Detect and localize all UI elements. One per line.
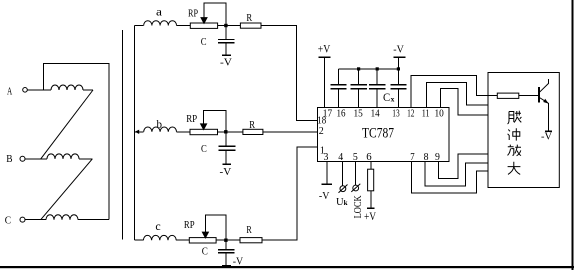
- svg-text:a: a: [156, 4, 163, 18]
- potentiometer RP (a): [188, 3, 226, 28]
- svg-text:16: 16: [337, 107, 346, 119]
- glyph 放: [508, 145, 522, 156]
- terminal pin 5 LOCK: [351, 162, 364, 219]
- wire: [262, 147, 318, 240]
- node junction c: [224, 239, 227, 242]
- power -V (cap bus): [393, 44, 405, 69]
- svg-text:18: 18: [317, 115, 326, 127]
- resistor R (a): [240, 12, 261, 28]
- svg-text:RP: RP: [188, 9, 198, 20]
- svg-text:C: C: [383, 90, 390, 104]
- svg-text:5: 5: [353, 151, 358, 163]
- capacitor C (c): [202, 240, 235, 265]
- svg-text:+V: +V: [364, 209, 376, 223]
- svg-text:c: c: [155, 219, 160, 233]
- svg-text:3: 3: [324, 151, 329, 163]
- wire pin 7 route: [411, 162, 488, 194]
- wire pin 9 route: [438, 154, 488, 179]
- wire: [41, 90, 93, 159]
- capacitor C4 Cx (pin 13): [383, 69, 407, 108]
- svg-text:+V: +V: [318, 42, 331, 56]
- wire pin 12 route: [411, 76, 497, 108]
- wire: [176, 239, 189, 241]
- svg-text:13: 13: [392, 107, 400, 119]
- wire: [27, 89, 51, 91]
- svg-text:7: 7: [410, 151, 415, 163]
- wire: [218, 25, 241, 27]
- wire: [134, 131, 143, 133]
- wire: [134, 239, 143, 241]
- node C: [5, 215, 25, 227]
- wire: [79, 158, 92, 160]
- svg-text:-V: -V: [233, 255, 243, 267]
- wire: [263, 131, 318, 133]
- svg-text:B: B: [6, 153, 12, 165]
- block pulse amplifier 脉冲放大: [488, 73, 559, 188]
- svg-text:LOCK: LOCK: [353, 195, 364, 218]
- wire: [216, 239, 240, 241]
- svg-text:C: C: [201, 36, 207, 48]
- resistor R (c): [240, 224, 262, 243]
- transistor Q1: [539, 79, 549, 131]
- inductor c: [143, 219, 176, 240]
- wire: [177, 25, 191, 27]
- svg-text:8: 8: [424, 151, 429, 163]
- node B: [6, 153, 25, 165]
- glyph 大: [508, 162, 521, 175]
- wire: [177, 131, 191, 133]
- wire: [218, 131, 243, 133]
- svg-text:R: R: [246, 224, 252, 236]
- potentiometer RP (c): [184, 215, 226, 243]
- capacitor C (b): [201, 132, 235, 164]
- winding LB: [47, 154, 79, 159]
- potentiometer RP (b): [186, 110, 226, 134]
- capacitor C3 (pin 14): [369, 69, 385, 108]
- wire pin 8 route: [425, 162, 488, 186]
- wire: [44, 63, 109, 219]
- svg-text:10: 10: [435, 107, 445, 119]
- power -V (c): [222, 255, 243, 267]
- svg-text:R: R: [246, 12, 252, 24]
- node arrow junction b: [135, 130, 139, 134]
- wire: [83, 89, 93, 91]
- svg-text:-V: -V: [541, 131, 552, 143]
- svg-text:11: 11: [422, 107, 430, 119]
- svg-text:6: 6: [366, 151, 372, 163]
- capacitor C1 (pin 16): [330, 69, 346, 108]
- node junction a: [224, 24, 227, 27]
- svg-text:-V: -V: [393, 44, 404, 56]
- power +V (pin 17): [318, 42, 331, 108]
- svg-text:15: 15: [354, 107, 364, 119]
- capacitor C2 (pin 15): [351, 69, 367, 108]
- svg-text:C: C: [201, 143, 207, 155]
- svg-text:14: 14: [371, 107, 380, 119]
- power -V (b): [220, 164, 232, 178]
- wire pin 10 route: [440, 89, 488, 115]
- node junction b: [224, 130, 227, 133]
- svg-text:4: 4: [338, 151, 343, 163]
- winding LA: [51, 85, 83, 90]
- node dot: [397, 67, 400, 70]
- node A: [7, 86, 27, 97]
- wire right bus: [133, 26, 135, 241]
- power -V (pin 3): [319, 162, 332, 203]
- svg-text:TC787: TC787: [362, 125, 394, 141]
- svg-text:x: x: [391, 94, 395, 103]
- winding LC: [46, 215, 78, 220]
- svg-text:k: k: [344, 199, 348, 207]
- svg-text:9: 9: [435, 151, 440, 163]
- svg-text:2: 2: [319, 126, 324, 137]
- resistor R (b): [243, 119, 263, 135]
- wire pin 11 route: [427, 82, 489, 107]
- svg-text:C: C: [202, 245, 208, 257]
- wire: [78, 219, 109, 221]
- svg-text:RP: RP: [184, 220, 195, 231]
- terminal pin 4 Uk: [336, 162, 348, 208]
- glyph 冲: [508, 128, 520, 140]
- op-amp U1 TC787 chip body: [318, 108, 450, 162]
- power -V (emitter): [541, 131, 552, 143]
- resistor R7 (in block): [497, 93, 539, 98]
- svg-text:-V: -V: [220, 56, 232, 68]
- svg-text:RP: RP: [186, 114, 197, 125]
- svg-text:U: U: [336, 196, 344, 208]
- inductor b: [144, 117, 177, 132]
- wire: [41, 159, 93, 220]
- border right: [572, 0, 574, 270]
- wire left bus: [121, 30, 123, 239]
- wire: [134, 25, 143, 27]
- glyph 脉: [508, 111, 522, 124]
- wire: [261, 26, 318, 121]
- svg-text:-V: -V: [220, 166, 232, 178]
- svg-text:C: C: [5, 215, 11, 227]
- power -V (a): [220, 55, 232, 68]
- capacitor C (a): [201, 26, 235, 56]
- border bottom: [0, 266, 574, 268]
- svg-text:A: A: [7, 86, 13, 97]
- node dot: [376, 67, 379, 70]
- resistor R6 (pin 6): [368, 162, 374, 209]
- node dot: [357, 67, 360, 70]
- svg-text:-V: -V: [319, 190, 330, 202]
- wire cap bus: [338, 68, 398, 70]
- inductor a: [144, 4, 177, 25]
- wire: [25, 219, 46, 221]
- svg-text:12: 12: [407, 107, 414, 119]
- power +V (pin 6): [364, 208, 376, 223]
- wire: [25, 158, 47, 160]
